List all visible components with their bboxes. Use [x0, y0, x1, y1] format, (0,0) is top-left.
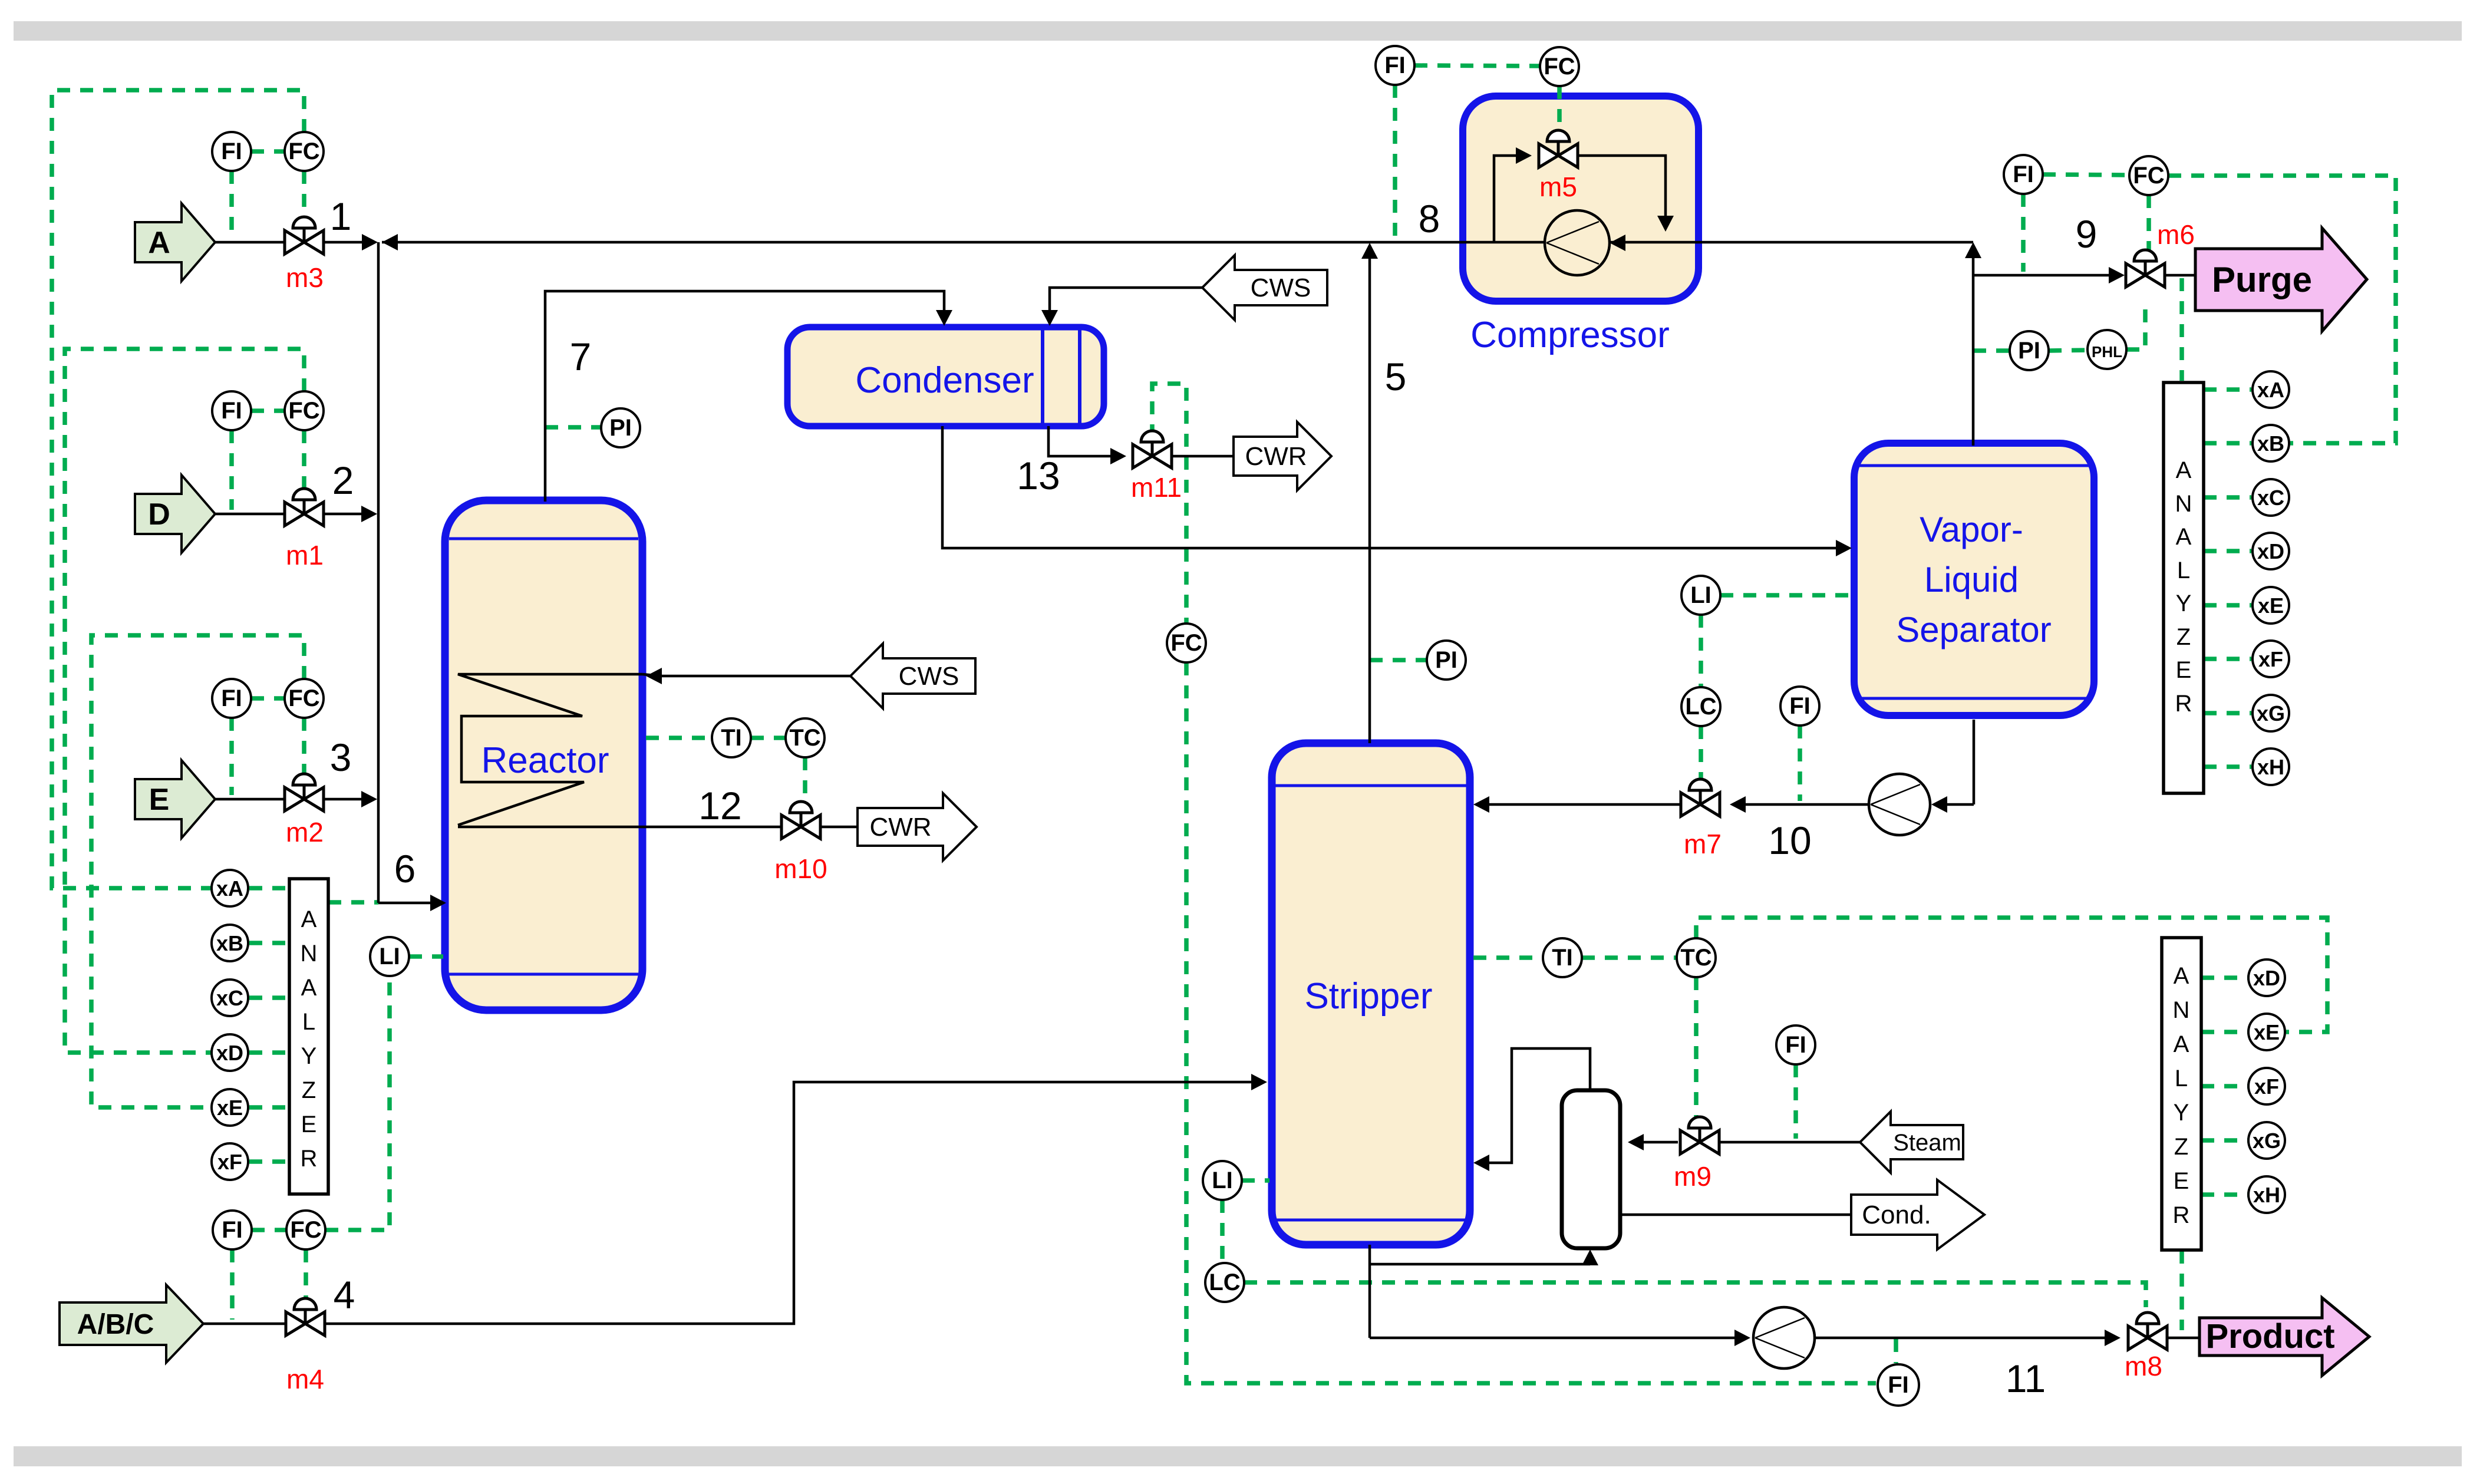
- svg-text:Compressor: Compressor: [1470, 315, 1670, 355]
- instrument xC (3853,844): [2253, 479, 2289, 516]
- svg-text:FC: FC: [2133, 163, 2164, 189]
- svg-text:FI: FI: [221, 398, 242, 424]
- instrument xH (3846,2027): [2248, 1176, 2285, 1213]
- instrument PHL (3575,593): [2088, 330, 2126, 369]
- svg-text:CWS: CWS: [899, 662, 959, 691]
- CWS arrow (condenser): [1202, 255, 1327, 320]
- wire separator riser: [1972, 246, 1975, 446]
- control valve m3: [285, 217, 324, 254]
- wire reactor coil zigzag: [458, 674, 642, 825]
- signal line left analyzer stub row 1: [249, 886, 289, 891]
- analyzer box right bottom (product): [2162, 938, 2201, 1250]
- wire reboiler vapor return: [1489, 1048, 1590, 1163]
- signal line FI compressor to line 8: [1393, 85, 1397, 238]
- svg-text:Purge: Purge: [2212, 260, 2312, 299]
- wire separator bottom outlet: [1973, 720, 1976, 804]
- wire stream 5 stripper to main line: [1368, 248, 1371, 743]
- signal line PI to stream 7: [545, 425, 601, 430]
- signal line separator LI link: [1720, 593, 1852, 598]
- svg-text:Reactor: Reactor: [481, 740, 609, 781]
- arrowhead into pump 10: [1931, 796, 1947, 813]
- svg-text:xA: xA: [2257, 378, 2284, 402]
- signal line FI-E to line 3: [229, 718, 234, 795]
- arrowhead toward valve m7: [1730, 796, 1746, 813]
- reboiler / steam heater: [1562, 1090, 1620, 1248]
- signal line loop FC-D to xD: [65, 349, 304, 1053]
- svg-text:R: R: [2173, 1202, 2190, 1228]
- bottom gray bar: [14, 1446, 2462, 1466]
- svg-text:m11: m11: [1131, 472, 1182, 503]
- signal line left analyzer stub row 6: [249, 1159, 289, 1164]
- instrument xG (3853,1210): [2253, 695, 2289, 731]
- signal line analyzer 2 sample from product line: [2179, 1251, 2184, 1330]
- svg-text:1: 1: [330, 194, 352, 238]
- signal line TI to TC: [751, 736, 786, 740]
- vessel Stripper: [1272, 743, 1470, 1245]
- signal line analyzer1 stub row 1: [2204, 387, 2251, 392]
- signal line valve m11 to FC: [1152, 384, 1186, 624]
- reactor liquid level line top: [449, 537, 638, 540]
- signal line analyzer2 stub row 2: [2201, 1030, 2248, 1034]
- wire stripper bottom outlet: [1368, 1245, 1371, 1338]
- wire stream 3 feed E to valve m2: [215, 798, 285, 801]
- instrument FI (393,697): [212, 391, 251, 430]
- condenser head divider lines: [1041, 330, 1044, 423]
- svg-text:PI: PI: [1435, 647, 1457, 673]
- control valve m8: [2128, 1312, 2167, 1350]
- wire condensate line from reboiler: [1620, 1213, 1851, 1216]
- wire condenser outlet to separator: [942, 426, 1836, 548]
- signal line TC to valve m9: [1694, 977, 1699, 1117]
- svg-text:5: 5: [1385, 355, 1407, 398]
- svg-text:R: R: [301, 1146, 318, 1172]
- signal line analyzer2 stub row 4: [2201, 1138, 2248, 1143]
- instrument xH (3853,1301): [2253, 748, 2289, 785]
- signal line left analyzer stub row 2: [249, 941, 289, 945]
- instrument xE (3846,1751): [2248, 1014, 2285, 1050]
- svg-text:Steam: Steam: [1893, 1130, 1961, 1156]
- svg-text:FI: FI: [221, 138, 242, 164]
- signal line loop FC-A to xA: [52, 90, 304, 888]
- svg-text:LC: LC: [1209, 1269, 1240, 1295]
- signal line left analyzer stub row 5: [249, 1105, 289, 1110]
- arrowhead stream 4 into stripper: [1251, 1074, 1267, 1090]
- control valve m4: [286, 1298, 325, 1335]
- svg-text:TI: TI: [1552, 945, 1573, 971]
- svg-text:xA: xA: [216, 876, 243, 901]
- instrument LC (2078,2176): [1205, 1263, 1244, 1302]
- vessel Compressor box: [1463, 96, 1699, 301]
- instrument xE (390,1879): [212, 1089, 248, 1126]
- svg-text:12: 12: [698, 784, 741, 827]
- wire outlet to pump: [1946, 803, 1974, 806]
- svg-text:4: 4: [334, 1273, 355, 1317]
- svg-text:FI: FI: [2013, 161, 2034, 187]
- arrowhead stream 6 into reactor: [430, 895, 446, 911]
- svg-text:2: 2: [332, 459, 354, 502]
- wire steam valve to reboiler: [1643, 1141, 1678, 1144]
- instrument xF (3846,1843): [2248, 1068, 2285, 1104]
- svg-text:xC: xC: [216, 986, 243, 1010]
- svg-text:D: D: [148, 497, 170, 532]
- svg-text:m6: m6: [2157, 219, 2195, 250]
- analyzer box left (reactor feed): [289, 879, 328, 1194]
- instrument xB (3853,752): [2253, 425, 2289, 461]
- svg-text:TC: TC: [1680, 945, 1711, 971]
- svg-text:L: L: [2177, 558, 2190, 583]
- signal line FI to line 10: [1798, 725, 1802, 801]
- svg-text:PHL: PHL: [2092, 343, 2122, 361]
- instrument FI (394,2087): [213, 1211, 252, 1249]
- signal line analyzer1 stub row 3: [2204, 495, 2251, 500]
- reactor liquid level line bottom: [449, 973, 638, 976]
- svg-text:xF: xF: [2258, 647, 2283, 671]
- svg-text:PI: PI: [609, 415, 632, 441]
- arrowhead into valve m11: [1110, 448, 1126, 464]
- svg-text:N: N: [2173, 997, 2190, 1023]
- svg-text:Z: Z: [2176, 624, 2191, 650]
- svg-text:xG: xG: [2253, 1129, 2281, 1153]
- wire compressor bypass left: [1494, 156, 1516, 242]
- svg-text:E: E: [301, 1112, 317, 1137]
- signal line LC to valve m7: [1699, 726, 1703, 780]
- signal line loop FC-E to xE: [91, 635, 304, 1107]
- signal line analyzer1 stub row 2: [2204, 441, 2251, 446]
- svg-text:9: 9: [2076, 212, 2098, 256]
- signal line analyzer2 stub row 1: [2201, 975, 2248, 980]
- wire stream 13 valve to CWR: [1172, 455, 1234, 458]
- wire stream 9 to purge valve: [1973, 274, 2109, 277]
- instrument FC (516,257): [285, 132, 324, 171]
- svg-text:Cond.: Cond.: [1862, 1201, 1931, 1229]
- svg-text:LI: LI: [379, 944, 400, 969]
- signal line FC to FI product flow: [1186, 662, 1876, 1383]
- signal line PHL to valve m6: [2126, 302, 2145, 349]
- signal line left analyzer stub row 4: [249, 1050, 289, 1055]
- svg-text:LC: LC: [1685, 694, 1716, 720]
- svg-text:E: E: [149, 783, 170, 817]
- arrowhead into stripper: [1473, 796, 1489, 813]
- svg-text:xD: xD: [2257, 539, 2284, 563]
- wire CWS stub: [642, 674, 661, 676]
- wire stream 1 valve to junction: [324, 241, 365, 244]
- control valve m6: [2126, 250, 2165, 287]
- wire stream 3 valve to header: [324, 798, 365, 801]
- svg-text:m1: m1: [286, 540, 324, 570]
- svg-text:FI: FI: [1789, 693, 1811, 719]
- signal line left analyzer stub row 3: [249, 995, 289, 1000]
- svg-text:m2: m2: [286, 817, 324, 847]
- svg-text:L: L: [302, 1009, 315, 1035]
- wire stream 8 recycle main line: [382, 241, 1973, 244]
- svg-text:FC: FC: [288, 138, 319, 164]
- arrowhead vapor into stripper: [1473, 1155, 1489, 1171]
- instrument FI (393,1185): [212, 679, 251, 718]
- svg-text:m5: m5: [1539, 172, 1577, 202]
- instrument xD (390,1786): [212, 1034, 248, 1071]
- wire stream 6 into reactor: [378, 902, 433, 905]
- svg-text:TI: TI: [721, 725, 742, 751]
- signal line PI to PHL: [2049, 350, 2088, 351]
- wire stream 7 reactor to condenser: [545, 291, 944, 502]
- signal line TI to TC stripper: [1582, 955, 1677, 960]
- svg-text:A: A: [2174, 1031, 2189, 1057]
- svg-text:xD: xD: [216, 1041, 243, 1065]
- wire stream 9 valve to purge: [2165, 274, 2197, 277]
- svg-text:xE: xE: [2258, 593, 2284, 618]
- signal line FI-FC feed ABC: [252, 1228, 286, 1232]
- svg-text:A: A: [301, 975, 317, 1001]
- feed arrow D: [135, 475, 215, 553]
- svg-text:Product: Product: [2205, 1317, 2334, 1356]
- analyzer box right top (purge): [2164, 382, 2204, 793]
- arrowhead riser into main line: [1965, 242, 1981, 258]
- instrument xA (390,1507): [212, 870, 248, 906]
- signal line analyzer2 stub row 5: [2201, 1192, 2248, 1197]
- signal line FI to steam line: [1793, 1064, 1798, 1139]
- signal line loop stripper TC to xE: [1696, 918, 2327, 1032]
- svg-text:8: 8: [1419, 197, 1440, 240]
- arrowhead into valve m8: [2105, 1330, 2121, 1346]
- svg-text:3: 3: [330, 736, 352, 779]
- Cond. arrow: [1851, 1180, 1984, 1249]
- wire steam line to valve m9: [1717, 1141, 1860, 1144]
- signal line FC-E to valve m2: [302, 718, 306, 779]
- pump product pump: [1753, 1307, 1815, 1368]
- signal line loop FC purge to xB: [2168, 176, 2396, 443]
- svg-text:m7: m7: [1684, 829, 1722, 859]
- control valve m11: [1133, 431, 1172, 468]
- signal line analyzer1 stub row 5: [2204, 603, 2251, 608]
- instrument xD (3853,935): [2253, 533, 2289, 569]
- svg-text:13: 13: [1017, 454, 1060, 497]
- svg-text:FC: FC: [288, 398, 319, 424]
- signal line riser to PI: [1973, 348, 2010, 353]
- vessel Vapor-Liquid Separator: [1854, 443, 2094, 715]
- wire stream 13 condenser CW outlet: [1048, 426, 1110, 456]
- instrument FI (3221,2350): [1878, 1364, 1919, 1406]
- svg-text:6: 6: [394, 847, 416, 891]
- instrument FI (3433,296): [2004, 155, 2043, 194]
- wire stream 12 valve to CWR: [820, 826, 858, 829]
- svg-text:FI: FI: [1785, 1032, 1806, 1058]
- wire stream 10 valve to stripper: [1489, 803, 1681, 806]
- instrument PI (1053,726): [601, 408, 640, 447]
- Steam arrow: [1860, 1112, 1963, 1173]
- arrowhead CWS into coil: [646, 668, 662, 684]
- wire stripper outlet to reboiler: [1370, 1263, 1590, 1266]
- svg-text:Condenser: Condenser: [855, 360, 1034, 401]
- signal line PI to stream 5: [1370, 658, 1427, 662]
- signal line FI stub to product line: [1894, 1339, 1898, 1363]
- control valve m2: [285, 774, 324, 811]
- svg-text:A: A: [148, 226, 170, 260]
- signal line FC-D to valve m1: [302, 430, 306, 494]
- svg-text:R: R: [2175, 691, 2192, 717]
- svg-text:7: 7: [570, 335, 592, 378]
- svg-text:TC: TC: [789, 725, 820, 751]
- wire feed header vertical: [377, 242, 380, 903]
- signal line FI-FC purge: [2043, 174, 2129, 175]
- signal line FC-A to valve m3: [302, 171, 306, 221]
- signal line analyzer1 stub row 8: [2204, 764, 2251, 769]
- instrument PI (2454,1120): [1427, 641, 1466, 680]
- instrument FI (2367,111): [1376, 46, 1414, 85]
- svg-text:xG: xG: [2257, 701, 2285, 725]
- CWR arrow (stream 12): [858, 793, 977, 860]
- signal line stripper LI link: [1242, 1178, 1269, 1183]
- svg-text:CWR: CWR: [1245, 442, 1307, 471]
- svg-text:10: 10: [1768, 819, 1811, 862]
- control valve m7: [1681, 779, 1720, 816]
- instrument FC (2013,1091): [1167, 624, 1206, 662]
- instrument xF (3853,1118): [2253, 641, 2289, 677]
- signal line analyzer2 stub row 3: [2201, 1084, 2248, 1089]
- arrowhead into valve m6: [2109, 267, 2125, 283]
- control valve m9: [1680, 1117, 1719, 1154]
- instrument FC (516,1185): [285, 679, 324, 718]
- svg-text:A: A: [301, 906, 317, 932]
- arrowhead into reboiler bottom: [1582, 1249, 1598, 1265]
- Purge arrow: [2195, 228, 2367, 331]
- signal line FC to valve m5: [1557, 86, 1562, 131]
- instrument FC (3646,298): [2129, 156, 2168, 195]
- wire stream 11 pump to valve: [1813, 1337, 2105, 1340]
- instrument xF (390,1971): [212, 1143, 248, 1180]
- instrument xE (3853,1027): [2253, 587, 2289, 624]
- svg-text:CWR: CWR: [869, 813, 931, 842]
- top gray bar: [14, 21, 2462, 41]
- wire stream 11 valve to product: [2167, 1337, 2201, 1340]
- svg-text:E: E: [2176, 657, 2192, 683]
- svg-text:PI: PI: [2018, 338, 2040, 364]
- svg-text:FC: FC: [1544, 54, 1575, 80]
- svg-text:m8: m8: [2125, 1351, 2162, 1381]
- instrument xG (3846,1935): [2248, 1122, 2285, 1159]
- vessel Condenser: [787, 327, 1104, 426]
- wire stream 2 valve to header: [324, 513, 365, 516]
- svg-text:m9: m9: [1674, 1161, 1711, 1192]
- signal line FI-A to line 1: [229, 171, 234, 238]
- control valve m1: [285, 489, 324, 526]
- wire stream 4 feed to valve m4: [203, 1323, 286, 1325]
- svg-text:LI: LI: [1212, 1168, 1233, 1193]
- svg-text:FI: FI: [1888, 1372, 1909, 1398]
- signal line stripper to TI: [1473, 955, 1543, 960]
- svg-text:Y: Y: [301, 1043, 317, 1069]
- arrowhead into separator: [1836, 540, 1852, 556]
- svg-text:xH: xH: [2257, 755, 2284, 779]
- svg-text:11: 11: [2006, 1357, 2046, 1400]
- svg-text:xH: xH: [2253, 1183, 2280, 1207]
- svg-text:FC: FC: [288, 685, 319, 711]
- svg-text:LI: LI: [1690, 582, 1711, 608]
- signal line FI-FC feed E: [251, 696, 285, 701]
- feed arrow A/B/C: [60, 1285, 203, 1363]
- vessel Reactor: [445, 500, 642, 1010]
- arrowhead steam into reboiler: [1628, 1134, 1644, 1150]
- arrowhead stream 1 into junction: [362, 234, 378, 250]
- wire CWS supply to reactor coil: [661, 675, 850, 678]
- instrument LI (2074,2003): [1203, 1161, 1242, 1200]
- arrowhead stream 7 into condenser: [936, 310, 952, 326]
- instrument xA (3853,661): [2253, 371, 2289, 408]
- pump separator underflow pump: [1869, 774, 1930, 835]
- instrument TC (2878,1625): [1677, 938, 1716, 977]
- signal line analyzer1 stub row 4: [2204, 549, 2251, 553]
- svg-text:A/B/C: A/B/C: [77, 1309, 154, 1340]
- signal line left analyzer sample from stream 6: [328, 900, 378, 905]
- svg-text:Liquid: Liquid: [1924, 560, 2019, 599]
- signal line FI purge to line 9: [2021, 194, 2026, 272]
- svg-text:m4: m4: [286, 1364, 324, 1394]
- instrument TI (1241,1252): [712, 718, 751, 757]
- arrowhead stream 5 into main line: [1361, 243, 1378, 259]
- signal line TC to valve m10: [803, 757, 807, 807]
- wire CWS supply to condenser: [1050, 288, 1202, 311]
- instrument PI (3443,595): [2010, 331, 2049, 370]
- signal line reactor to TI: [646, 736, 712, 740]
- svg-text:Z: Z: [302, 1077, 316, 1103]
- svg-text:N: N: [301, 941, 318, 967]
- svg-text:Separator: Separator: [1896, 610, 2052, 649]
- signal line LI to reactor: [409, 954, 443, 959]
- svg-text:xC: xC: [2257, 486, 2284, 510]
- instrument xC (390,1693): [212, 980, 248, 1016]
- feed arrow E: [135, 760, 215, 838]
- arrowhead stream 2 into header: [361, 506, 377, 522]
- svg-text:xE: xE: [2254, 1020, 2280, 1044]
- svg-text:FI: FI: [221, 685, 242, 711]
- signal line FC purge to valve m6: [2146, 195, 2151, 252]
- instrument xB (390,1600): [212, 925, 248, 961]
- svg-text:xE: xE: [217, 1096, 243, 1120]
- signal line LI to LC stripper: [1220, 1200, 1225, 1263]
- signal line LI to LC separator: [1699, 615, 1703, 687]
- wire stream 12 coil outlet: [458, 826, 781, 829]
- signal line FI-ABC to line 4: [230, 1249, 235, 1320]
- wire stream 4 valve to stripper: [325, 1082, 1252, 1324]
- signal line FI-FC compressor: [1414, 65, 1540, 66]
- svg-text:xB: xB: [2257, 431, 2284, 456]
- instrument LI (2886,1010): [1681, 576, 1720, 615]
- wire stream 10 pump to valve: [1745, 803, 1869, 806]
- svg-text:xB: xB: [216, 931, 243, 955]
- svg-text:Vapor-: Vapor-: [1920, 510, 2023, 549]
- feed arrow A: [135, 203, 215, 281]
- signal line loop LC stripper to valve m8: [1244, 1282, 2146, 1307]
- instrument FC (519,2087): [286, 1211, 325, 1249]
- svg-text:E: E: [2174, 1168, 2189, 1194]
- instrument FC (2646,113): [1540, 47, 1579, 86]
- instrument TI (2651,1625): [1543, 938, 1582, 977]
- signal line FI-D to line 2: [229, 430, 234, 510]
- arrowhead recycle into junction: [382, 234, 398, 250]
- wire compressor bypass right: [1578, 156, 1666, 216]
- instrument FI (3054,1198): [1780, 687, 1819, 725]
- arrowhead CWS into condenser: [1041, 310, 1058, 326]
- svg-text:Z: Z: [2174, 1134, 2188, 1160]
- signal line FI-FC feed A: [251, 149, 285, 154]
- instrument xD (3846,1659): [2248, 959, 2285, 996]
- signal line analyzer1 stub row 6: [2204, 657, 2251, 661]
- signal line FI-FC feed D: [251, 408, 285, 413]
- svg-text:CWS: CWS: [1251, 273, 1311, 302]
- control valve m10: [781, 802, 820, 839]
- arrowhead into valve m5: [1516, 147, 1532, 164]
- arrowhead into compressor: [1610, 235, 1625, 251]
- control valve m5: [1539, 130, 1578, 167]
